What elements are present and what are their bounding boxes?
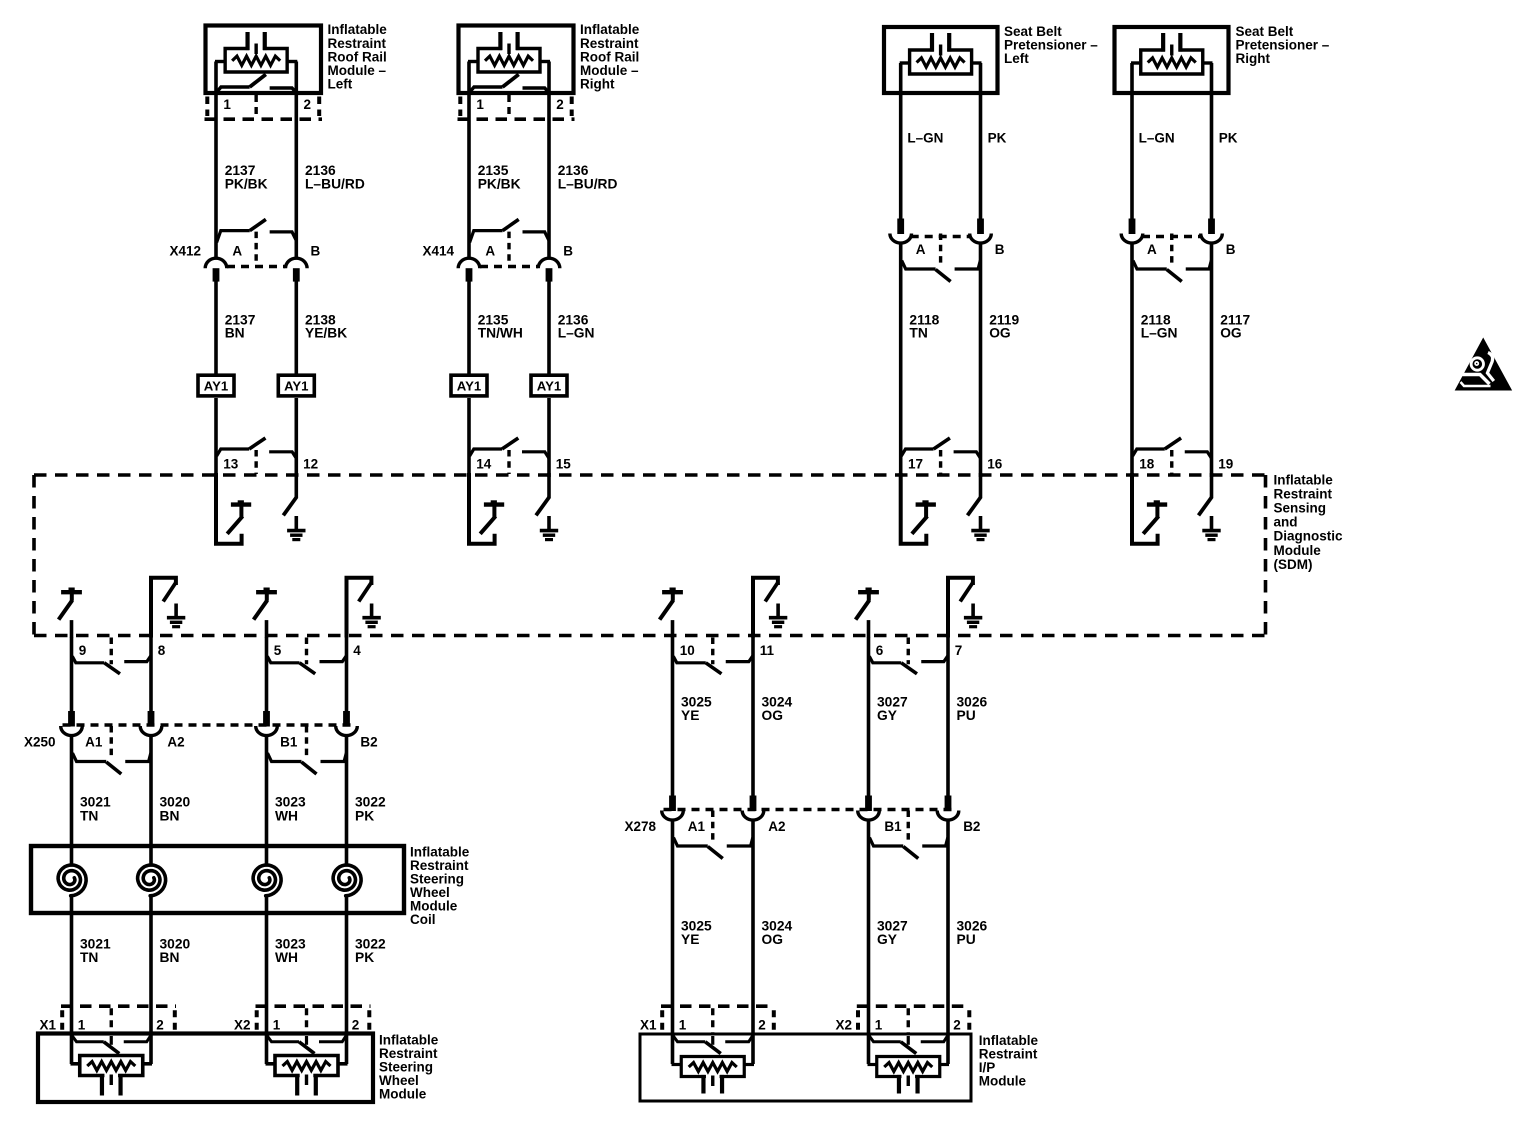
connector X414 shorting bar right bbox=[523, 232, 549, 240]
wire L-GN from pretensioner left bbox=[899, 63, 903, 219]
svg-text:Module: Module bbox=[1274, 543, 1322, 558]
SDM squib driver for pin 10 wire stub bbox=[671, 620, 675, 637]
ground symbol for pin 4 bar2 bbox=[365, 621, 377, 624]
roof rail left squib igniter center dash bbox=[254, 44, 257, 55]
steering wheel squib 1 igniter center dash bbox=[110, 1075, 113, 1086]
roof rail right connector bottom dashed line bbox=[458, 117, 575, 121]
svg-text:A1: A1 bbox=[688, 819, 706, 834]
steering wheel squib 1 igniter stub left bbox=[71, 1062, 81, 1066]
svg-text:AY1: AY1 bbox=[537, 379, 561, 394]
connector X414 pin A socket bbox=[458, 258, 480, 268]
SDM pin 10 exit bar bbox=[673, 656, 705, 663]
svg-text:Left: Left bbox=[328, 77, 353, 92]
SDM ground switch for pin 19 wire stub bbox=[1210, 473, 1214, 498]
connector X278-B shorting bar right bbox=[922, 838, 948, 847]
SDM squib driver for pin 13 supply tick bbox=[238, 500, 244, 504]
connector pretensioner right connector pin A male pin bbox=[1129, 219, 1136, 235]
roof rail right squib igniter resistor zigzag bbox=[485, 56, 533, 65]
SDM pin 17/16 entry blade bbox=[934, 438, 950, 449]
wire 3023 WH from SDM pin 5 bbox=[265, 637, 269, 713]
svg-text:19: 19 bbox=[1218, 456, 1233, 471]
wire L-GN from pretensioner right bbox=[1130, 63, 1134, 219]
steering wheel squib 1 igniter resistor zigzag bbox=[87, 1062, 135, 1071]
wire 2136 L-BU/RD from roof rail left pin 2 bbox=[294, 62, 298, 260]
connector X278 shorting bar right bbox=[727, 838, 753, 847]
SDM squib driver for pin 13 stem bbox=[239, 506, 243, 518]
connector X250 shorting blade bbox=[106, 762, 121, 774]
connector X250 pin A2 male pin bbox=[148, 711, 155, 727]
SDM pin 6 exit bar bbox=[869, 656, 901, 663]
connector X278-B shorting bar left bbox=[870, 838, 904, 847]
roof rail left squib shorting clip bar right bbox=[270, 88, 296, 93]
svg-text:GY: GY bbox=[877, 932, 897, 947]
svg-text:B2: B2 bbox=[963, 819, 980, 834]
svg-text:PK/BK: PK/BK bbox=[478, 176, 521, 191]
I/P module squib 1 center dash upper bbox=[711, 1036, 714, 1045]
svg-text:YE/BK: YE/BK bbox=[305, 326, 347, 341]
wire 2138 YE/BK below X412 bbox=[294, 281, 298, 374]
ground symbol for pin 8 bar3 bbox=[172, 625, 180, 628]
connector pretensioner right connector center dash bbox=[1170, 234, 1173, 267]
SDM squib driver for pin 14 supply tick bbox=[491, 500, 497, 504]
steering wheel squib 2 shorting clip bar left bbox=[267, 1036, 299, 1042]
module box: Seat Belt Pretensioner - Right bbox=[1115, 27, 1229, 93]
ground symbol for pin 15 bar3 bbox=[545, 538, 553, 541]
svg-text:B: B bbox=[563, 244, 573, 259]
wire 3027 GY from X278 to I/P module bbox=[867, 820, 871, 1065]
roof rail left connector bottom dashed line bbox=[205, 117, 323, 121]
wire 2136 L-BU/RD from roof rail right pin 2 bbox=[547, 62, 551, 260]
roof rail right squib shorting clip bar left bbox=[470, 87, 503, 92]
roof rail left connector center dash bbox=[254, 95, 257, 118]
connector X250 shorting bar left bbox=[73, 753, 107, 762]
connector X412 shorting bar right bbox=[270, 232, 296, 240]
connector X2 left dash column bbox=[856, 1010, 860, 1033]
connector X2 center dash bbox=[305, 1008, 308, 1035]
SDM squib driver for pin 14 wire hook bbox=[469, 473, 495, 544]
wire 3027 GY from SDM pin 6 bbox=[867, 637, 871, 798]
svg-text:BN: BN bbox=[225, 326, 245, 341]
roof rail right squib igniter stub right bbox=[539, 60, 550, 63]
svg-text:6: 6 bbox=[876, 643, 884, 658]
ground symbol for pin 16 bar3 bbox=[977, 538, 985, 541]
wire 3026 PU from X278 to I/P module bbox=[946, 820, 950, 1065]
svg-text:BN: BN bbox=[160, 950, 180, 965]
svg-text:Coil: Coil bbox=[410, 912, 436, 927]
module box: Inflatable Restraint Roof Rail Module - Right bbox=[459, 26, 574, 94]
connector X278 pin A2 male pin bbox=[750, 796, 757, 812]
SDM squib driver for pin 14 stem bbox=[492, 506, 496, 518]
connector X278-B pin B1 socket bbox=[858, 811, 880, 821]
I/P module squib 2 center dash upper bbox=[907, 1036, 910, 1045]
airbag warning triangle icon bbox=[1456, 339, 1512, 391]
svg-text:3025: 3025 bbox=[681, 694, 712, 709]
svg-text:BN: BN bbox=[160, 808, 180, 823]
svg-text:B1: B1 bbox=[884, 819, 902, 834]
connector X1 left dash column bbox=[660, 1010, 664, 1033]
steering wheel squib 1 igniter legs bbox=[100, 1074, 104, 1096]
connector X1 right dash column bbox=[173, 1010, 177, 1033]
svg-text:X2: X2 bbox=[836, 1017, 853, 1032]
SDM squib driver for pin 18 blade bbox=[1143, 516, 1158, 534]
SDM squib driver for pin 17 stem bbox=[924, 506, 928, 518]
wire 2135 PK/BK from roof rail right pin 1 bbox=[467, 62, 471, 260]
SDM pin 4 exit bar bbox=[320, 656, 347, 662]
SDM entry center dash pins 18/19 bbox=[1170, 450, 1173, 474]
svg-text:10: 10 bbox=[680, 643, 695, 658]
steering wheel squib 2 igniter legs bbox=[295, 1074, 299, 1096]
connector pretensioner left connector shorting blade bbox=[936, 270, 951, 282]
wire 3024 OG from X278 to I/P module bbox=[751, 820, 755, 1065]
connector X2 top dashed line bbox=[857, 1004, 971, 1008]
connector X2 left dash column bbox=[255, 1010, 259, 1033]
ground symbol for pin 19 bar2 bbox=[1205, 534, 1217, 537]
SDM entry center dash pins 17/16 bbox=[939, 450, 942, 474]
SDM ground switch for pin 8 wire hook bbox=[151, 578, 176, 638]
pretensioner left squib igniter stub right bbox=[971, 61, 982, 64]
I/P module squib 1 shorting clip blade bbox=[705, 1042, 721, 1054]
steering wheel squib 2 shorting clip bar right bbox=[319, 1036, 346, 1042]
SDM pin 5/4 exit blade bbox=[300, 663, 316, 674]
SDM pin 13/12 entry blade bbox=[249, 438, 265, 449]
svg-text:PK: PK bbox=[355, 950, 374, 965]
svg-text:7: 7 bbox=[955, 643, 963, 658]
ground symbol for pin 16 bar1 bbox=[971, 529, 989, 533]
connector pretensioner left connector pin A male pin bbox=[897, 219, 904, 235]
connector X2 center dash bbox=[907, 1008, 910, 1035]
roof rail right squib igniter legs bbox=[498, 32, 502, 50]
svg-text:PK/BK: PK/BK bbox=[225, 176, 268, 191]
svg-text:16: 16 bbox=[987, 456, 1003, 471]
wire 2118 TN below pretensioner left connector bbox=[899, 242, 903, 477]
svg-text:OG: OG bbox=[762, 932, 783, 947]
steering wheel squib 1 center dash upper bbox=[110, 1036, 113, 1045]
connector X278 pin A2 socket bbox=[742, 811, 764, 821]
connector X414 pin A male pin bbox=[466, 268, 473, 281]
svg-text:AY1: AY1 bbox=[284, 379, 308, 394]
pretensioner right squib igniter resistor zigzag bbox=[1148, 58, 1196, 67]
steering wheel squib 1 shorting clip bar right bbox=[124, 1036, 151, 1042]
SDM ground switch for pin 15 wire stub bbox=[547, 473, 551, 498]
SDM squib driver for pin 9 blade bbox=[59, 600, 73, 619]
svg-text:3024: 3024 bbox=[762, 918, 793, 933]
SDM squib driver for pin 6 blade bbox=[856, 600, 870, 619]
svg-text:TN: TN bbox=[80, 808, 98, 823]
ground symbol for pin 4 bar3 bbox=[368, 625, 376, 628]
ground symbol for pin 4 stem bbox=[370, 604, 374, 618]
connector X278 center dash bbox=[711, 811, 714, 844]
connector pretensioner left connector pin B male pin bbox=[977, 219, 984, 235]
svg-text:A2: A2 bbox=[167, 735, 184, 750]
ground symbol for pin 7 stem bbox=[971, 604, 975, 618]
AY1 splice pack (wire 2135) box bbox=[451, 375, 487, 396]
wire 2136 L-GN below X414 bbox=[547, 281, 551, 374]
connector X250-B pin B1 socket bbox=[256, 726, 278, 736]
svg-text:X1: X1 bbox=[640, 1017, 657, 1032]
wire 3021 TN from SDM pin 9 bbox=[70, 637, 74, 713]
connector pretensioner left connector center dash bbox=[939, 234, 942, 267]
svg-text:OG: OG bbox=[989, 326, 1010, 341]
svg-text:L–GN: L–GN bbox=[558, 326, 595, 341]
roof rail left squib igniter legs bbox=[245, 32, 249, 50]
svg-text:Right: Right bbox=[1236, 51, 1271, 66]
SDM squib driver for pin 9 wire stub bbox=[70, 620, 74, 637]
SDM squib driver for pin 6 wire stub bbox=[867, 620, 871, 637]
svg-text:3020: 3020 bbox=[160, 795, 191, 810]
ground symbol for pin 7 bar2 bbox=[967, 621, 979, 624]
SDM dashed boundary left edge bbox=[32, 475, 36, 636]
svg-text:4: 4 bbox=[353, 643, 361, 658]
SDM pin 14/15 entry blade bbox=[502, 438, 518, 449]
SDM squib driver for pin 9 supply bar bbox=[61, 590, 82, 594]
SDM dashed boundary top edge bbox=[34, 473, 1266, 477]
connector X278-B shorting blade bbox=[903, 847, 918, 859]
connector X414 shorting bar left bbox=[470, 231, 503, 243]
I/P module squib 1 shorting clip bar right bbox=[725, 1036, 752, 1042]
svg-text:1: 1 bbox=[476, 97, 484, 112]
svg-text:Left: Left bbox=[1004, 51, 1029, 66]
connector X1 center dash bbox=[110, 1008, 113, 1035]
steering wheel squib 1 shorting clip blade bbox=[104, 1042, 120, 1054]
SDM squib driver for pin 18 wire hook bbox=[1132, 473, 1158, 544]
I/P module squib 2 igniter stub left bbox=[868, 1063, 878, 1066]
SDM squib driver for pin 5 stem bbox=[265, 594, 269, 601]
ground symbol for pin 19 bar1 bbox=[1202, 529, 1220, 533]
connector X412 pin A socket bbox=[205, 258, 227, 268]
ground symbol for pin 11 bar1 bbox=[769, 616, 787, 620]
connector pretensioner left connector shorting bar left bbox=[902, 261, 936, 270]
svg-text:3027: 3027 bbox=[877, 918, 908, 933]
svg-text:B2: B2 bbox=[360, 735, 377, 750]
svg-text:AY1: AY1 bbox=[204, 379, 228, 394]
SDM squib driver for pin 18 supply bar bbox=[1147, 502, 1167, 506]
SDM pin 8 exit bar bbox=[124, 656, 151, 662]
svg-text:X278: X278 bbox=[625, 819, 657, 834]
connector pretensioner right connector shorting bar right bbox=[1186, 261, 1212, 270]
connector X412 pin A male pin bbox=[213, 268, 220, 281]
svg-text:L–BU/RD: L–BU/RD bbox=[558, 176, 618, 191]
connector X2 right dash column bbox=[367, 1010, 371, 1033]
svg-text:2: 2 bbox=[556, 97, 564, 112]
connector X250 pin A1 socket bbox=[61, 726, 83, 736]
roof rail right squib shorting clip bar right bbox=[523, 88, 549, 93]
roof rail left squib igniter stub left bbox=[215, 60, 226, 63]
SDM ground switch for pin 19 blade bbox=[1199, 497, 1212, 516]
ground symbol for pin 12 stem bbox=[294, 516, 298, 530]
svg-text:WH: WH bbox=[275, 808, 298, 823]
roof rail left squib igniter resistor zigzag bbox=[232, 56, 280, 65]
connector pretensioner right connector pin A socket bbox=[1121, 234, 1143, 244]
SDM squib driver for pin 6 supply bar bbox=[858, 590, 879, 594]
svg-text:L–GN: L–GN bbox=[1141, 326, 1178, 341]
SDM pin 6/7 exit blade bbox=[901, 663, 917, 674]
svg-text:X1: X1 bbox=[40, 1017, 57, 1032]
svg-text:5: 5 bbox=[274, 643, 282, 658]
I/P module squib 2 igniter resistor zigzag bbox=[884, 1063, 932, 1072]
svg-text:PK: PK bbox=[988, 131, 1007, 146]
connector X278-B center dash bbox=[907, 811, 910, 844]
SDM pin 16 entry bar bbox=[954, 452, 981, 458]
connector X250-B shorting bar right bbox=[321, 753, 347, 762]
roof rail left connector dashes right column bbox=[317, 97, 321, 117]
svg-text:L–GN: L–GN bbox=[1139, 131, 1175, 146]
ground symbol for pin 16 bar2 bbox=[974, 534, 986, 537]
roof rail left squib shorting clip blade bbox=[250, 74, 266, 87]
connector pretensioner left connector body dashed line bbox=[911, 235, 971, 238]
SDM dashed boundary bottom edge bbox=[34, 634, 1266, 638]
SDM squib driver for pin 17 supply bar bbox=[916, 502, 936, 506]
connector X414 shorting blade bbox=[503, 219, 519, 230]
SDM squib driver for pin 17 wire hook bbox=[901, 473, 927, 544]
SDM ground switch for pin 16 wire stub bbox=[979, 473, 983, 498]
wire 3025 YE from X278 to I/P module bbox=[671, 820, 675, 1065]
SDM ground switch for pin 11 blade bbox=[765, 582, 778, 602]
steering wheel squib 2 igniter stub left bbox=[266, 1062, 277, 1066]
SDM squib driver for pin 18 supply tick bbox=[1154, 500, 1160, 504]
SDM ground switch for pin 4 wire hook bbox=[347, 578, 372, 638]
SDM pin 19 entry bar bbox=[1185, 452, 1212, 458]
SDM squib driver for pin 10 supply tick bbox=[670, 588, 676, 592]
svg-text:PK: PK bbox=[355, 808, 374, 823]
SDM ground switch for pin 12 blade bbox=[283, 497, 296, 516]
wire 3026 PU from SDM pin 7 bbox=[946, 637, 950, 798]
svg-text:PU: PU bbox=[957, 932, 976, 947]
svg-text:11: 11 bbox=[760, 643, 775, 658]
svg-text:3023: 3023 bbox=[275, 936, 306, 951]
wire below coil 1 bbox=[70, 895, 74, 1008]
I/P module squib 1 igniter resistor zigzag bbox=[689, 1063, 737, 1072]
wire from AY1 splice pack (wire 2135) to SDM bbox=[467, 398, 471, 477]
svg-text:3022: 3022 bbox=[355, 795, 386, 810]
connector X414 body dashed line bbox=[480, 265, 538, 268]
connector X278 pin A1 socket bbox=[662, 811, 684, 821]
coil 1 spiral winding bbox=[58, 865, 86, 896]
svg-text:13: 13 bbox=[223, 456, 239, 471]
steering wheel squib 2 igniter resistor box bbox=[275, 1056, 338, 1076]
pretensioner right squib igniter resistor box bbox=[1141, 50, 1203, 74]
connector X250 pin A2 socket bbox=[140, 726, 162, 736]
SDM squib driver for pin 13 blade bbox=[227, 516, 242, 534]
svg-text:A: A bbox=[1147, 242, 1157, 257]
I/P module squib 1 igniter stub right bbox=[743, 1063, 754, 1066]
ground symbol for pin 15 bar1 bbox=[540, 529, 558, 533]
wire from AY1 splice pack (wire 2137) to SDM bbox=[214, 398, 218, 477]
SDM squib driver for pin 13 supply bar bbox=[231, 502, 251, 506]
connector X414 pin B socket bbox=[538, 258, 560, 268]
pretensioner left squib igniter resistor zigzag bbox=[917, 58, 965, 67]
SDM squib driver for pin 14 blade bbox=[480, 516, 495, 534]
ground symbol for pin 11 bar3 bbox=[774, 625, 782, 628]
svg-text:3026: 3026 bbox=[957, 918, 988, 933]
pretensioner left squib igniter resistor box bbox=[910, 50, 972, 74]
SDM pin 9 exit bar bbox=[72, 656, 104, 663]
wire from AY1 splice pack (wire 2138) to SDM bbox=[294, 398, 298, 477]
SDM squib driver for pin 5 supply bar bbox=[256, 590, 277, 594]
SDM pin 17 entry bar bbox=[901, 449, 933, 456]
svg-text:2: 2 bbox=[758, 1017, 766, 1032]
AY1 splice pack (wire 2136) box bbox=[531, 375, 567, 396]
connector X278 body dashed line full span bbox=[664, 808, 958, 811]
pretensioner left squib igniter stub left bbox=[900, 61, 911, 64]
connector X278 shorting bar left bbox=[674, 838, 708, 847]
connector X278-B pin B2 socket bbox=[937, 811, 959, 821]
wire below coil 4 bbox=[345, 895, 349, 1008]
module box: Inflatable Restraint Steering Wheel Module bbox=[38, 1034, 373, 1103]
svg-text:1: 1 bbox=[875, 1017, 883, 1032]
ground symbol for pin 12 bar3 bbox=[292, 538, 300, 541]
SDM pin 18/19 entry blade bbox=[1165, 438, 1181, 449]
ground symbol for pin 8 bar2 bbox=[170, 621, 182, 624]
svg-text:1: 1 bbox=[273, 1017, 281, 1032]
svg-text:1: 1 bbox=[78, 1017, 86, 1032]
wire into steering module at x=266.5 bbox=[265, 1007, 269, 1064]
svg-text:18: 18 bbox=[1139, 456, 1155, 471]
svg-text:Inflatable: Inflatable bbox=[1274, 472, 1334, 487]
svg-text:3025: 3025 bbox=[681, 918, 712, 933]
svg-text:Restraint: Restraint bbox=[1274, 486, 1333, 501]
connector X412 body dashed line bbox=[227, 265, 285, 268]
SDM pin 7 exit bar bbox=[921, 656, 948, 662]
svg-text:A1: A1 bbox=[85, 735, 103, 750]
svg-text:X2: X2 bbox=[234, 1017, 251, 1032]
SDM pin 10/11 exit blade bbox=[706, 663, 722, 674]
connector pretensioner left connector pin A socket bbox=[890, 234, 912, 244]
svg-text:3023: 3023 bbox=[275, 795, 306, 810]
wire 3024 OG from SDM pin 11 bbox=[751, 637, 755, 798]
ground symbol for pin 12 bar1 bbox=[287, 529, 305, 533]
svg-text:AY1: AY1 bbox=[457, 379, 481, 394]
svg-text:(SDM): (SDM) bbox=[1274, 557, 1313, 572]
svg-text:8: 8 bbox=[158, 643, 166, 658]
svg-text:3026: 3026 bbox=[957, 694, 988, 709]
svg-text:WH: WH bbox=[275, 950, 298, 965]
svg-text:and: and bbox=[1274, 515, 1298, 530]
I/P module squib 1 igniter legs bbox=[701, 1075, 705, 1094]
wire from AY1 splice pack (wire 2136) to SDM bbox=[547, 398, 551, 477]
I/P module squib 2 shorting clip bar right bbox=[921, 1036, 948, 1042]
SDM exit center dash pins 5/4 bbox=[305, 638, 308, 665]
wire 2137 BN below X412 bbox=[214, 281, 218, 374]
svg-text:15: 15 bbox=[556, 456, 572, 471]
I/P module squib 1 shorting clip bar left bbox=[673, 1036, 705, 1042]
SDM squib driver for pin 6 supply tick bbox=[866, 588, 872, 592]
connector X250 pin A1 male pin bbox=[68, 711, 75, 727]
ground symbol for pin 8 bar1 bbox=[167, 616, 185, 620]
connector X278 shorting blade bbox=[708, 847, 723, 859]
roof rail right squib igniter resistor box bbox=[478, 49, 540, 73]
wire 2135 TN/WH below X414 bbox=[467, 281, 471, 374]
module box: Inflatable Restraint I/P Module bbox=[640, 1034, 971, 1101]
svg-text:14: 14 bbox=[476, 456, 492, 471]
module box: Inflatable Restraint Roof Rail Module - Left bbox=[206, 26, 322, 94]
SDM pin 9/8 exit blade bbox=[104, 663, 120, 674]
svg-text:L–GN: L–GN bbox=[907, 131, 943, 146]
roof rail left squib igniter resistor box bbox=[225, 49, 287, 73]
SDM ground switch for pin 11 wire hook bbox=[753, 578, 778, 638]
svg-text:X414: X414 bbox=[423, 244, 455, 259]
ground symbol for pin 19 bar3 bbox=[1208, 538, 1216, 541]
coil 3 spiral winding bbox=[253, 865, 281, 896]
SDM ground switch for pin 8 blade bbox=[163, 582, 176, 602]
SDM ground switch for pin 7 blade bbox=[960, 582, 973, 602]
roof rail right squib igniter center dash bbox=[507, 44, 510, 55]
connector X2 right dash column bbox=[967, 1010, 971, 1033]
AY1 splice pack (wire 2138) box bbox=[278, 375, 314, 396]
SDM squib driver for pin 17 supply tick bbox=[922, 500, 928, 504]
ground symbol for pin 15 stem bbox=[547, 516, 551, 530]
SDM squib driver for pin 10 blade bbox=[660, 600, 674, 619]
I/P module squib 2 shorting clip blade bbox=[901, 1042, 917, 1054]
